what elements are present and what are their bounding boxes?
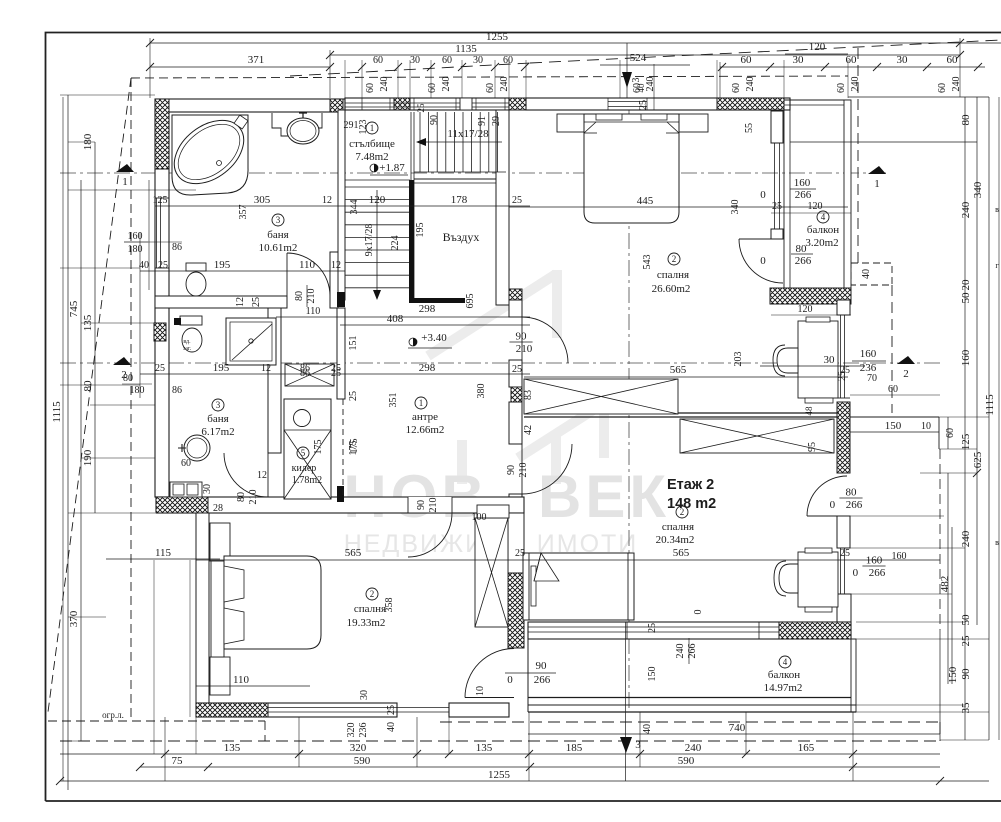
balcony2 inner floor edge bbox=[528, 697, 851, 699]
svg-text:240: 240 bbox=[685, 742, 702, 754]
svg-text:180: 180 bbox=[128, 244, 143, 255]
svg-text:740: 740 bbox=[729, 722, 746, 734]
bed bedroom3 nightstand lower bbox=[210, 657, 230, 695]
svg-text:30: 30 bbox=[202, 484, 213, 494]
window band bedroom2 bottom bbox=[528, 626, 779, 628]
svg-text:1: 1 bbox=[874, 178, 880, 190]
svg-text:25: 25 bbox=[416, 103, 426, 113]
svg-text:25: 25 bbox=[960, 635, 972, 647]
svg-text:240: 240 bbox=[499, 77, 510, 92]
svg-text:240: 240 bbox=[379, 77, 390, 92]
svg-text:150: 150 bbox=[885, 420, 902, 432]
svg-text:240: 240 bbox=[850, 77, 861, 92]
hatched wall segment bedroom3 bottom bbox=[196, 703, 268, 717]
svg-text:86: 86 bbox=[300, 368, 310, 379]
balcony2 right wall bbox=[851, 639, 856, 712]
balcony2 bottom railing bbox=[528, 704, 856, 706]
window bedroom1 right bbox=[774, 143, 776, 229]
svg-text:25: 25 bbox=[158, 260, 168, 271]
svg-text:266: 266 bbox=[534, 674, 551, 686]
hatched wall segment south of bath2 bbox=[156, 497, 208, 513]
svg-text:30: 30 bbox=[793, 54, 805, 66]
dashed roof line right bbox=[857, 48, 859, 263]
hatched wall block hall east bbox=[511, 387, 522, 402]
dimension line top 1135 bbox=[330, 54, 960, 56]
svg-text:баня: баня bbox=[267, 229, 288, 241]
svg-text:+1.87: +1.87 bbox=[379, 162, 405, 174]
svg-text:240: 240 bbox=[675, 644, 686, 659]
terrace dims bbox=[850, 431, 939, 433]
svg-text:25: 25 bbox=[512, 195, 522, 206]
dimension line y206 bath and stairs bbox=[155, 205, 530, 207]
closet right wall black block bbox=[337, 486, 344, 502]
bed bedroom3 nightstand upper bbox=[210, 523, 230, 561]
svg-text:408: 408 bbox=[387, 313, 404, 325]
wall hall east lower bbox=[509, 402, 522, 444]
svg-text:20.34m2: 20.34m2 bbox=[656, 534, 695, 546]
svg-text:25: 25 bbox=[837, 371, 848, 381]
svg-text:80: 80 bbox=[123, 373, 133, 384]
dimension line bottom y767 bbox=[140, 766, 940, 768]
wardrobe bedroom3 bbox=[475, 518, 508, 627]
dashed ground line bottom bbox=[60, 740, 940, 742]
wall antre west bbox=[337, 308, 345, 399]
closet cross brace bbox=[284, 430, 331, 499]
svg-text:351: 351 bbox=[388, 393, 399, 408]
svg-text:86: 86 bbox=[172, 242, 182, 253]
door arc hall to bedroom2 bbox=[522, 444, 572, 494]
wall exterior top bedroom1 bbox=[526, 98, 790, 110]
washing machine bath2 bbox=[170, 482, 202, 497]
toilet bath1 bbox=[186, 263, 206, 271]
svg-text:135: 135 bbox=[224, 742, 241, 754]
svg-text:90: 90 bbox=[416, 500, 427, 510]
bed bedroom2 footboard lines bbox=[627, 553, 629, 620]
washbasin bath1 bbox=[287, 118, 319, 144]
svg-text:60: 60 bbox=[503, 55, 513, 66]
svg-text:266: 266 bbox=[846, 499, 863, 511]
desk bedroom1 bbox=[798, 321, 838, 398]
svg-text:баня: баня bbox=[207, 413, 228, 425]
watermark logo emblem bbox=[428, 270, 612, 484]
svg-text:203: 203 bbox=[733, 352, 744, 367]
svg-text:70: 70 bbox=[867, 373, 877, 384]
svg-text:28: 28 bbox=[213, 503, 223, 514]
svg-text:110: 110 bbox=[233, 674, 250, 686]
svg-text:150: 150 bbox=[647, 667, 658, 682]
svg-text:190: 190 bbox=[82, 449, 94, 466]
dashed plot outline top bbox=[131, 76, 848, 78]
svg-text:в: в bbox=[995, 538, 999, 547]
svg-text:10.61m2: 10.61m2 bbox=[259, 242, 298, 254]
door arc hall to bedroom3 bbox=[408, 513, 452, 557]
balcony1 top edge bbox=[784, 99, 851, 101]
balcony1 right wall bbox=[844, 100, 851, 288]
roof marker 2 right bbox=[897, 356, 915, 364]
svg-text:12.66m2: 12.66m2 bbox=[406, 424, 445, 436]
svg-text:125: 125 bbox=[153, 195, 168, 206]
svg-text:298: 298 bbox=[419, 362, 436, 374]
bed bedroom2 pillow bbox=[531, 566, 536, 606]
svg-text:60: 60 bbox=[442, 55, 452, 66]
svg-text:60: 60 bbox=[427, 83, 438, 93]
cabinet above wardrobe bedroom3 bbox=[477, 505, 509, 518]
wall bedroom2 bottom band bbox=[528, 622, 851, 639]
svg-text:1: 1 bbox=[122, 176, 128, 188]
dashed plot outline bottom-left eave bbox=[48, 720, 265, 722]
window left wall bath1 bbox=[156, 198, 158, 268]
svg-text:балкон: балкон bbox=[807, 224, 839, 236]
wall bath1/bath2 divider bbox=[155, 296, 287, 308]
svg-text:спалня: спалня bbox=[662, 521, 694, 533]
terrace edge right of bedroom1 bbox=[850, 416, 939, 418]
svg-text:25: 25 bbox=[331, 368, 341, 379]
centerline vertical bbox=[628, 98, 630, 712]
svg-text:в: в bbox=[995, 205, 999, 214]
room label balcony2 bbox=[779, 656, 791, 668]
svg-text:14.97m2: 14.97m2 bbox=[764, 682, 803, 694]
svg-text:12: 12 bbox=[331, 260, 341, 271]
svg-text:236: 236 bbox=[358, 723, 369, 738]
svg-text:40: 40 bbox=[642, 724, 653, 734]
svg-text:340: 340 bbox=[972, 181, 984, 198]
desk dim 30 bbox=[760, 365, 865, 367]
bed bedroom1 body bbox=[584, 114, 679, 223]
svg-text:482: 482 bbox=[939, 576, 951, 593]
svg-text:370: 370 bbox=[68, 610, 80, 627]
door arc bedroom3 to balcony2 bbox=[465, 649, 514, 698]
svg-text:60: 60 bbox=[181, 458, 191, 469]
svg-text:60: 60 bbox=[947, 54, 959, 66]
svg-text:1135: 1135 bbox=[455, 43, 477, 55]
svg-text:565: 565 bbox=[670, 364, 687, 376]
hatched wall pier bedroom2 left bbox=[508, 573, 524, 648]
hatched wall pier stair-top 2 / bedroom1 corner bbox=[509, 98, 526, 110]
svg-text:266: 266 bbox=[687, 644, 698, 659]
svg-text:антре: антре bbox=[412, 411, 438, 423]
svg-text:160: 160 bbox=[860, 348, 877, 360]
dimension line top 371 bbox=[150, 66, 330, 68]
svg-text:90: 90 bbox=[536, 660, 548, 672]
svg-text:240: 240 bbox=[960, 201, 972, 218]
svg-text:4: 4 bbox=[821, 212, 826, 222]
svg-text:80: 80 bbox=[236, 492, 247, 502]
svg-text:110: 110 bbox=[306, 306, 321, 317]
svg-text:210: 210 bbox=[516, 343, 533, 355]
window bedroom2 right bbox=[840, 548, 842, 594]
svg-text:25: 25 bbox=[772, 201, 782, 212]
svg-text:0: 0 bbox=[853, 567, 859, 579]
svg-text:25: 25 bbox=[386, 705, 397, 715]
svg-text:100: 100 bbox=[472, 512, 487, 523]
svg-text:25: 25 bbox=[155, 363, 165, 374]
wall between bedroom1 and bedroom2 bbox=[524, 412, 839, 414]
room label bath2 bbox=[212, 399, 224, 411]
svg-text:266: 266 bbox=[795, 189, 812, 201]
bed bedroom1 nightstand right bbox=[679, 114, 708, 132]
svg-text:балкон: балкон bbox=[768, 669, 800, 681]
svg-text:178: 178 bbox=[451, 194, 468, 206]
svg-text:165: 165 bbox=[798, 742, 815, 754]
wall hall east upper bbox=[509, 300, 522, 317]
wall stub bath1 door jamb bbox=[330, 252, 338, 308]
white pier stair top band bbox=[460, 98, 472, 110]
svg-text:25: 25 bbox=[348, 391, 359, 401]
svg-text:590: 590 bbox=[678, 755, 695, 767]
svg-text:80: 80 bbox=[294, 291, 305, 301]
svg-text:25: 25 bbox=[251, 297, 262, 307]
hatched wall pier left middle bbox=[154, 323, 166, 341]
stair walk line with down arrow bbox=[376, 190, 378, 296]
svg-text:210: 210 bbox=[248, 490, 259, 505]
roof marker 1 right bbox=[868, 166, 886, 174]
svg-text:1: 1 bbox=[419, 398, 424, 408]
svg-text:135: 135 bbox=[82, 314, 94, 331]
svg-text:3: 3 bbox=[216, 400, 221, 410]
hatched wall segment bedroom2 bottom bbox=[779, 622, 851, 639]
svg-text:48: 48 bbox=[804, 406, 814, 416]
svg-text:25: 25 bbox=[515, 548, 525, 559]
room label hall bbox=[415, 397, 427, 409]
room label bath1 bbox=[272, 214, 284, 226]
shower cabin bath2 bbox=[226, 318, 276, 365]
closet dashed side bbox=[342, 399, 344, 499]
svg-text:148 m2: 148 m2 bbox=[667, 496, 716, 512]
svg-text:90: 90 bbox=[506, 465, 517, 475]
svg-text:60: 60 bbox=[741, 54, 753, 66]
svg-text:175: 175 bbox=[313, 440, 324, 455]
round washbasin bath2 bbox=[184, 435, 210, 461]
svg-text:25: 25 bbox=[647, 623, 658, 633]
svg-text:524: 524 bbox=[630, 52, 647, 64]
left roof marker 2 bbox=[113, 357, 131, 365]
svg-text:83: 83 bbox=[523, 390, 534, 400]
wall bedroom2 right bottom piece bbox=[837, 594, 851, 622]
svg-text:695: 695 bbox=[465, 294, 476, 309]
stair lower flight treads bbox=[345, 186, 410, 188]
svg-text:50: 50 bbox=[960, 614, 972, 626]
stair upper flight treads bbox=[419, 112, 421, 172]
bed bedroom2 body bbox=[523, 553, 634, 620]
dimension line bottom y754 bbox=[60, 753, 940, 755]
hatched wall band under balcony1 bbox=[770, 288, 851, 304]
svg-text:4: 4 bbox=[783, 657, 788, 667]
window bedroom3 bottom bbox=[268, 707, 449, 709]
svg-text:291: 291 bbox=[344, 120, 359, 131]
svg-text:42: 42 bbox=[523, 425, 534, 435]
svg-text:заг.: заг. bbox=[183, 346, 192, 352]
svg-text:вд.: вд. bbox=[183, 339, 191, 345]
svg-text:60: 60 bbox=[731, 83, 742, 93]
svg-text:90: 90 bbox=[960, 668, 972, 680]
extension vertical x190 bbox=[189, 560, 191, 717]
svg-text:266: 266 bbox=[795, 255, 812, 267]
svg-text:110: 110 bbox=[299, 259, 316, 271]
svg-text:60: 60 bbox=[846, 54, 858, 66]
left bottom dim 115 bbox=[106, 558, 220, 560]
svg-text:11x17/28: 11x17/28 bbox=[447, 128, 489, 140]
stair walk line upper with arrow bbox=[420, 141, 502, 143]
svg-text:625: 625 bbox=[972, 451, 984, 468]
svg-text:3: 3 bbox=[276, 215, 281, 225]
svg-text:7.48m2: 7.48m2 bbox=[355, 151, 388, 163]
svg-text:спалня: спалня bbox=[657, 269, 689, 281]
svg-text:160: 160 bbox=[866, 555, 883, 567]
wall bedroom1 right lower (outer) bbox=[837, 300, 850, 315]
svg-text:240: 240 bbox=[645, 77, 656, 92]
door arc bath1 bbox=[287, 253, 330, 296]
balcony1 west edge lines bbox=[783, 100, 785, 288]
dimension verticals bottom bbox=[164, 717, 166, 781]
wall piece south of balcony door bbox=[449, 703, 509, 717]
hatched wall block hall north-east bbox=[509, 289, 522, 308]
svg-text:огр.л.: огр.л. bbox=[102, 710, 124, 720]
dimension line y560 bottom rooms bbox=[196, 559, 940, 561]
wardrobe bedroom1 long bbox=[524, 379, 678, 414]
svg-text:380: 380 bbox=[476, 384, 487, 399]
wall bath2 east with door bbox=[268, 308, 281, 453]
svg-text:298: 298 bbox=[419, 303, 436, 315]
svg-text:185: 185 bbox=[566, 742, 583, 754]
svg-text:371: 371 bbox=[248, 54, 265, 66]
svg-text:3: 3 bbox=[631, 78, 642, 83]
hatched wall pier bedroom2 right bbox=[837, 402, 850, 473]
bed bedroom2 blanket fold bbox=[534, 553, 559, 581]
hatched wall pier top-left corner re-emit bbox=[155, 99, 169, 169]
svg-text:565: 565 bbox=[345, 547, 362, 559]
level mark +3.40 bbox=[409, 338, 417, 346]
svg-text:0: 0 bbox=[830, 499, 836, 511]
section line top with marker 3 bbox=[626, 43, 628, 98]
svg-text:1115: 1115 bbox=[51, 401, 63, 423]
svg-text:6.17m2: 6.17m2 bbox=[201, 426, 234, 438]
room label stairwell bbox=[366, 122, 378, 134]
left roof marker 1 bbox=[116, 164, 134, 172]
svg-text:30: 30 bbox=[410, 55, 420, 66]
chair bedroom1 bbox=[777, 348, 798, 373]
svg-text:745: 745 bbox=[68, 300, 80, 317]
closet килер box bbox=[284, 399, 331, 499]
svg-text:26.60m2: 26.60m2 bbox=[652, 283, 691, 295]
stair landing line bbox=[345, 179, 410, 181]
wall hall east mid bbox=[509, 360, 522, 387]
svg-text:3.20m2: 3.20m2 bbox=[805, 237, 838, 249]
wardrobe bedroom2 long bbox=[680, 419, 834, 453]
hatched wall pier stair-top 1 bbox=[394, 98, 410, 110]
wall between stairwell and bedroom1 bbox=[496, 110, 509, 305]
window mullions stair top bbox=[345, 102, 509, 104]
wall bedroom2 right below door bbox=[837, 516, 850, 548]
dimension line top windows 60-30-60 bbox=[720, 66, 985, 68]
svg-text:12: 12 bbox=[235, 297, 246, 307]
svg-text:2: 2 bbox=[672, 254, 677, 264]
svg-text:60: 60 bbox=[836, 83, 847, 93]
svg-text:9x17/28: 9x17/28 bbox=[364, 224, 375, 257]
svg-text:ВЕК: ВЕК bbox=[538, 463, 670, 530]
door arc bedroom2 right bbox=[807, 476, 847, 516]
svg-text:50: 50 bbox=[960, 292, 972, 304]
svg-text:0: 0 bbox=[760, 255, 766, 267]
extension verticals bottom-left bbox=[153, 560, 155, 754]
bed bedroom3 body bbox=[224, 556, 321, 649]
svg-text:0: 0 bbox=[760, 189, 766, 201]
bed bedroom3 pillows bbox=[224, 566, 244, 602]
right dimension verticals bbox=[988, 97, 990, 740]
svg-text:445: 445 bbox=[637, 195, 654, 207]
bed bedroom1 nightstand left bbox=[557, 114, 584, 132]
svg-text:210: 210 bbox=[518, 463, 529, 478]
svg-text:80: 80 bbox=[960, 114, 972, 126]
svg-text:0: 0 bbox=[507, 674, 513, 686]
window bedroom1 lower right bbox=[840, 315, 842, 398]
svg-text:195: 195 bbox=[213, 362, 230, 374]
bed bedroom3 headboard bbox=[211, 561, 224, 657]
dimension line top 1255 bbox=[150, 42, 1001, 44]
svg-text:30: 30 bbox=[473, 55, 483, 66]
svg-text:590: 590 bbox=[354, 755, 371, 767]
svg-text:305: 305 bbox=[254, 194, 271, 206]
svg-text:160: 160 bbox=[960, 349, 972, 366]
toilet bath2 with cistern bbox=[180, 316, 202, 325]
svg-text:12: 12 bbox=[322, 195, 332, 206]
svg-text:120: 120 bbox=[809, 41, 826, 53]
svg-text:240: 240 bbox=[960, 530, 972, 547]
svg-text:125: 125 bbox=[960, 433, 972, 450]
wall between bedroom3 and bedroom2 bbox=[508, 513, 524, 573]
svg-text:160: 160 bbox=[128, 231, 143, 242]
svg-text:40: 40 bbox=[861, 269, 872, 279]
washbasin counter bath1 bbox=[272, 113, 322, 136]
svg-text:120: 120 bbox=[798, 304, 813, 315]
svg-text:60: 60 bbox=[485, 83, 496, 93]
wall bedroom3 bottom bbox=[196, 703, 397, 717]
svg-text:86: 86 bbox=[172, 385, 182, 396]
svg-text:160: 160 bbox=[794, 177, 811, 189]
svg-text:12: 12 bbox=[257, 470, 267, 481]
dimension line left x63 bbox=[62, 97, 64, 781]
svg-text:80: 80 bbox=[846, 487, 858, 499]
svg-text:60: 60 bbox=[945, 428, 956, 438]
extension vertical x449 bbox=[448, 717, 450, 754]
centerline horizontal upper bbox=[60, 172, 890, 174]
balcony2 dim 740 bbox=[528, 733, 940, 735]
svg-text:25: 25 bbox=[512, 364, 522, 375]
section marker 3 bottom bbox=[625, 622, 627, 781]
svg-text:12: 12 bbox=[261, 363, 271, 374]
hatched wall segment top bedroom1 right bbox=[717, 98, 784, 110]
svg-text:30: 30 bbox=[359, 690, 370, 700]
svg-text:180: 180 bbox=[82, 133, 94, 150]
svg-text:240: 240 bbox=[745, 77, 756, 92]
balcony2 left edge bbox=[527, 639, 529, 712]
svg-text:60: 60 bbox=[373, 55, 383, 66]
wall bedroom3 left bbox=[196, 513, 209, 704]
svg-text:80: 80 bbox=[82, 380, 94, 392]
svg-text:320: 320 bbox=[346, 723, 357, 738]
door opening hall to bedroom3 bbox=[408, 497, 452, 513]
svg-text:90: 90 bbox=[429, 115, 440, 125]
svg-text:90: 90 bbox=[516, 331, 528, 343]
svg-text:55: 55 bbox=[744, 123, 755, 133]
svg-text:+3.40: +3.40 bbox=[421, 332, 447, 344]
svg-text:60: 60 bbox=[937, 83, 948, 93]
svg-text:40: 40 bbox=[636, 83, 646, 93]
hatched wall segment top of stair wall bbox=[330, 99, 343, 112]
svg-text:0: 0 bbox=[693, 610, 704, 615]
svg-text:175: 175 bbox=[349, 439, 360, 454]
svg-text:95: 95 bbox=[807, 442, 818, 452]
dimension line left x81 bbox=[80, 180, 82, 741]
